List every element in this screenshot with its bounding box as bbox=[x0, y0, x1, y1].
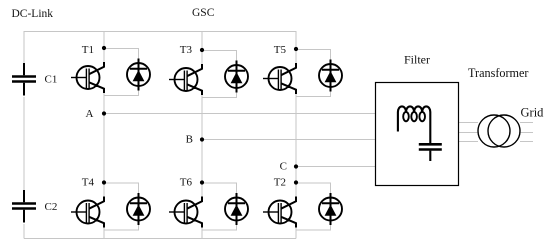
svg-text:GSC: GSC bbox=[192, 7, 215, 19]
svg-text:T3: T3 bbox=[180, 44, 193, 56]
svg-text:C2: C2 bbox=[45, 201, 58, 213]
svg-text:Transformer: Transformer bbox=[468, 66, 528, 80]
svg-text:DC-Link: DC-Link bbox=[12, 8, 54, 20]
svg-text:T5: T5 bbox=[274, 44, 287, 56]
svg-text:T1: T1 bbox=[82, 44, 94, 56]
svg-text:B: B bbox=[186, 133, 193, 145]
svg-text:Grid: Grid bbox=[521, 106, 545, 120]
svg-text:C: C bbox=[280, 161, 287, 173]
svg-text:T2: T2 bbox=[274, 176, 286, 188]
svg-text:T6: T6 bbox=[180, 176, 193, 188]
svg-text:Filter: Filter bbox=[404, 53, 430, 67]
svg-text:T4: T4 bbox=[82, 176, 95, 188]
svg-text:C1: C1 bbox=[45, 73, 58, 85]
svg-text:A: A bbox=[86, 108, 94, 120]
